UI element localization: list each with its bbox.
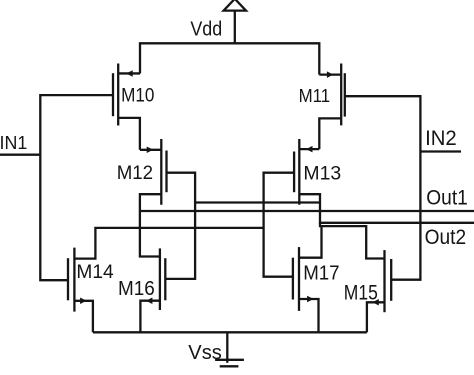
svg-text:IN2: IN2 <box>425 127 457 150</box>
svg-text:Out2: Out2 <box>425 226 467 249</box>
svg-text:Out1: Out1 <box>426 187 468 210</box>
svg-text:M17: M17 <box>303 263 339 285</box>
svg-text:M16: M16 <box>118 278 155 300</box>
svg-text:M13: M13 <box>303 163 341 185</box>
svg-text:M12: M12 <box>117 163 153 184</box>
svg-text:M11: M11 <box>299 85 331 106</box>
svg-text:Vdd: Vdd <box>190 18 222 40</box>
svg-text:M10: M10 <box>121 86 154 107</box>
svg-text:IN1: IN1 <box>0 132 27 153</box>
svg-text:M14: M14 <box>76 261 113 283</box>
svg-text:Vss: Vss <box>188 342 222 364</box>
svg-text:M15: M15 <box>344 282 378 305</box>
